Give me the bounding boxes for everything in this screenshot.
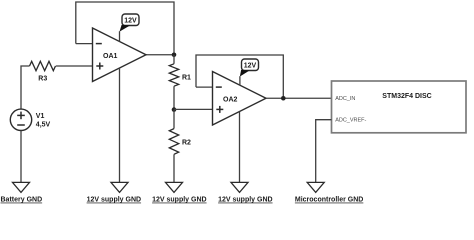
- ground Battery GND: [1, 182, 43, 203]
- ground 12V supply GND (under OA1): [87, 182, 141, 203]
- wire R3 left to V1 top: [21, 66, 30, 109]
- wire divider to OA2 non-inverting input: [174, 108, 213, 110]
- op-amp OA2: [213, 72, 267, 126]
- svg-text:Battery GND: Battery GND: [1, 197, 43, 204]
- wire OA1 output to junction: [146, 54, 174, 56]
- wire OA2 V- supply to ground: [239, 112, 241, 183]
- voltage source V1: [10, 109, 50, 130]
- svg-text:ADC_VREF-: ADC_VREF-: [335, 118, 366, 124]
- svg-text:4,5V: 4,5V: [36, 121, 51, 128]
- svg-text:R3: R3: [38, 75, 47, 82]
- ground 12V supply GND (under R2): [152, 182, 206, 203]
- node junction OA2 output / feedback: [281, 96, 286, 101]
- net flag 12V (OA2 supply): [240, 59, 259, 77]
- net flag 12V (OA1 supply): [120, 14, 140, 32]
- wire OA2 output to STM32 ADC_IN: [266, 97, 332, 99]
- svg-text:12V supply GND: 12V supply GND: [87, 197, 141, 204]
- wire OA2 feedback (up, across top, down to inverting input): [196, 55, 283, 98]
- svg-text:12V: 12V: [244, 63, 257, 70]
- wire OA1 V+ supply stub: [119, 31, 121, 41]
- svg-text:12V: 12V: [124, 18, 137, 25]
- svg-text:OA1: OA1: [103, 53, 118, 60]
- wire R3 to OA1 non-inverting input: [56, 65, 93, 67]
- resistor R2: [169, 110, 191, 183]
- svg-text:OA2: OA2: [223, 97, 238, 104]
- svg-text:12V supply GND: 12V supply GND: [218, 197, 272, 204]
- svg-text:ADC_IN: ADC_IN: [335, 96, 355, 102]
- svg-text:V1: V1: [36, 113, 45, 120]
- wire OA2 inverting input: [196, 86, 213, 88]
- node junction OA1 output / R1 top: [172, 52, 177, 57]
- ground 12V supply GND (under OA2): [218, 182, 272, 203]
- ground Microcontroller GND: [295, 182, 363, 203]
- wire OA2 V+ supply stub: [239, 76, 241, 85]
- op-amp OA1: [93, 28, 147, 82]
- block U1 STM32F4 DISC: [332, 81, 467, 133]
- svg-text:STM32F4 DISC: STM32F4 DISC: [382, 93, 431, 100]
- node junction R1/R2 divider: [172, 107, 177, 112]
- wire V1 bottom to Battery GND: [20, 131, 22, 183]
- wire OA1 feedback (up, across top, down to inverting input): [76, 2, 174, 55]
- wire OA1 inverting input: [76, 43, 93, 45]
- svg-text:R2: R2: [182, 140, 191, 147]
- wire OA1 V- supply to ground: [119, 68, 121, 182]
- resistor R1: [169, 55, 191, 110]
- svg-text:12V supply GND: 12V supply GND: [152, 197, 206, 204]
- wire STM32 ADC_VREF- to Microcontroller GND: [316, 120, 332, 183]
- svg-text:R1: R1: [182, 75, 191, 82]
- resistor R3: [30, 61, 56, 82]
- svg-text:Microcontroller GND: Microcontroller GND: [295, 197, 363, 204]
